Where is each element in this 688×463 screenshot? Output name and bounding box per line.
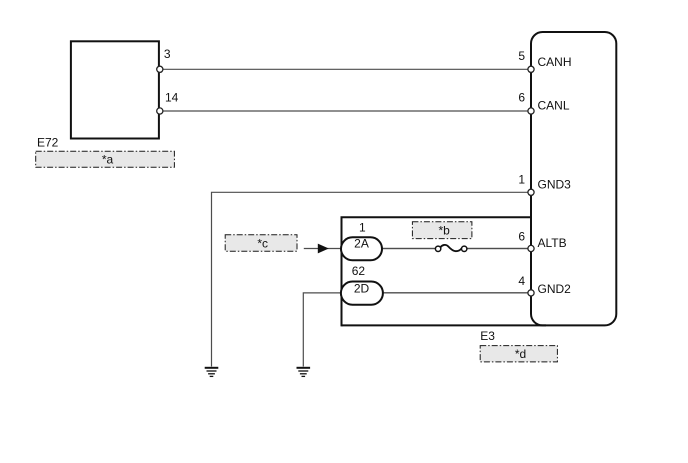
- svg-text:*d: *d: [515, 347, 526, 361]
- svg-text:1: 1: [359, 221, 366, 235]
- svg-text:1: 1: [518, 172, 525, 186]
- svg-text:GND3: GND3: [538, 178, 572, 192]
- svg-text:*a: *a: [102, 153, 114, 167]
- svg-text:CANH: CANH: [538, 55, 572, 69]
- svg-text:ALTB: ALTB: [538, 236, 567, 250]
- svg-text:*c: *c: [257, 236, 268, 250]
- svg-text:6: 6: [518, 91, 525, 105]
- svg-text:2A: 2A: [354, 237, 369, 251]
- svg-text:2D: 2D: [354, 282, 370, 296]
- svg-text:62: 62: [352, 264, 366, 278]
- svg-text:E72: E72: [37, 136, 59, 150]
- svg-text:5: 5: [518, 49, 525, 63]
- svg-text:CANL: CANL: [538, 99, 570, 113]
- svg-text:E3: E3: [480, 329, 495, 343]
- svg-text:GND2: GND2: [538, 282, 572, 296]
- svg-text:4: 4: [518, 274, 525, 288]
- svg-text:6: 6: [518, 230, 525, 244]
- svg-text:*b: *b: [439, 224, 451, 238]
- svg-text:14: 14: [165, 91, 179, 105]
- svg-text:3: 3: [164, 47, 171, 61]
